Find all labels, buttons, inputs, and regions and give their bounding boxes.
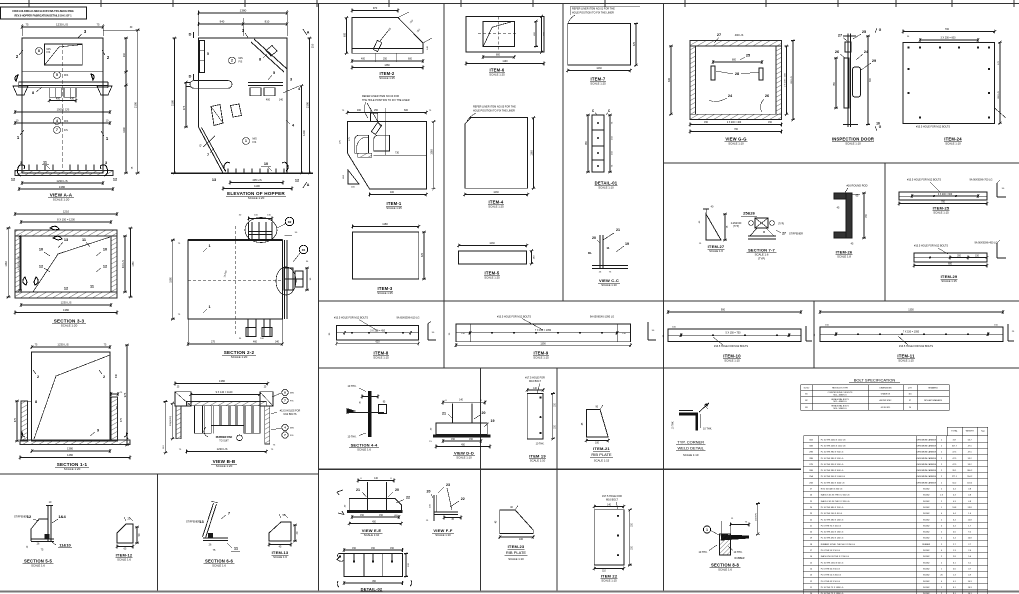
svg-text:340: 340 — [275, 341, 280, 344]
svg-text:600 L/S: 600 L/S — [998, 91, 1000, 99]
panel divider vertical x157 — [157, 474, 159, 591]
svg-text:2190: 2190 — [305, 101, 309, 108]
svg-text:Kgs: Kgs — [981, 431, 984, 433]
section 2-2 top detail ellipse — [245, 218, 277, 243]
section 3-3 top dims — [15, 213, 117, 215]
svg-text:SCALE 1:10: SCALE 1:10 — [508, 557, 524, 561]
svg-text:M16 BOLT: M16 BOLT — [606, 499, 618, 502]
svg-text:#13.5 HOLE FOR M12 BOLTS: #13.5 HOLE FOR M12 BOLTS — [334, 317, 368, 320]
svg-text:29: 29 — [872, 59, 876, 63]
svg-text:IS:2062: IS:2062 — [923, 495, 930, 497]
section 3-3 right dim — [124, 236, 126, 292]
svg-text:12: 12 — [113, 178, 117, 182]
item-8 bar — [337, 326, 419, 340]
view D-D top dim — [443, 401, 485, 403]
svg-text:SCALE 1:6: SCALE 1:6 — [212, 564, 226, 568]
svg-text:21: 21 — [616, 228, 620, 232]
svg-text:5: 5 — [273, 71, 275, 75]
view E-E body — [349, 499, 401, 511]
section 2-2 top connection — [251, 222, 253, 240]
elevation mark 2 circle — [229, 57, 236, 64]
svg-text:11: 11 — [606, 246, 610, 250]
section 1-1 right flange strip — [111, 397, 118, 441]
svg-text:DL: DL — [588, 251, 592, 255]
svg-text:CHROMIUM CARBIDE: CHROMIUM CARBIDE — [916, 475, 936, 478]
svg-text:SCALE 1:25: SCALE 1:25 — [590, 82, 606, 86]
svg-text:HEX BOLTS TYPE: HEX BOLTS TYPE — [832, 387, 849, 389]
item-1 top dims — [347, 112, 426, 114]
view B-B end blocks — [175, 392, 191, 406]
svg-text:THE HOLE POSITION TO FIX THE L: THE HOLE POSITION TO FIX THE LINER — [362, 99, 410, 102]
svg-text:M/S: M/S — [64, 120, 69, 123]
svg-text:24: 24 — [909, 407, 911, 409]
svg-text:SCALE 1:10: SCALE 1:10 — [845, 142, 861, 146]
svg-text:PL 6 THK 90 X 100 LG: PL 6 THK 90 X 100 LG — [821, 525, 842, 527]
svg-text:WITH AUTOWASHERS: WITH AUTOWASHERS — [924, 399, 943, 402]
item-11 bar — [820, 311, 1003, 313]
item-10 bar — [668, 311, 801, 313]
section 4-4 side box — [379, 405, 387, 414]
svg-text:SCALE 1:20: SCALE 1:20 — [53, 198, 70, 202]
svg-text:1230 L/S: 1230 L/S — [57, 342, 68, 346]
svg-text:PL 10 THK 580 X 140 LG: PL 10 THK 580 X 140 LG — [821, 519, 844, 521]
elevation window slot left — [211, 105, 223, 126]
svg-text:SCALE 1:6: SCALE 1:6 — [718, 568, 732, 572]
svg-text:SCALE 1:10: SCALE 1:10 — [530, 459, 546, 463]
view B-B left dims — [171, 403, 173, 438]
svg-text:#13.5 HOLE FOR M12 BOLTS: #13.5 HOLE FOR M12 BOLTS — [914, 245, 948, 248]
elevation bottom dims — [230, 182, 283, 184]
svg-text:CHROMIUM CARBIDE: CHROMIUM CARBIDE — [916, 469, 936, 472]
elevation mark 1 circle — [243, 138, 250, 145]
title note box top-left — [1, 7, 87, 19]
svg-text:12: 12 — [27, 514, 32, 519]
svg-text:13: 13 — [212, 178, 216, 182]
svg-text:PL 10 THK 75 X 1480 LG: PL 10 THK 75 X 1480 LG — [821, 587, 844, 589]
view B-B hanging ribs — [195, 406, 260, 433]
svg-text:SCALE 1:15: SCALE 1:15 — [373, 356, 389, 360]
item-1 inner dim — [374, 154, 427, 156]
svg-text:100: 100 — [595, 441, 600, 444]
item-25 bar — [899, 192, 987, 200]
svg-text:20: 20 — [592, 236, 596, 240]
svg-text:1240: 1240 — [302, 130, 306, 136]
svg-text:(TYP): (TYP) — [733, 226, 739, 228]
svg-text:(TYP): (TYP) — [778, 224, 784, 226]
item-6 outline — [466, 16, 544, 52]
svg-text:REFER LINER ITEM NO.01 FOR THE: REFER LINER ITEM NO.01 FOR THE — [572, 8, 615, 11]
svg-text:400: 400 — [390, 191, 395, 194]
svg-text:REFER LINER ITEM NO.04 FOR: REFER LINER ITEM NO.04 FOR — [362, 95, 399, 98]
svg-text:10 THK.: 10 THK. — [536, 443, 545, 446]
item-24 plate — [903, 42, 995, 123]
section 6-6 base — [203, 537, 228, 539]
item-27 rib triangle — [706, 214, 721, 240]
svg-text:STIFFENER: STIFFENER — [789, 233, 803, 236]
view G-G inner slots — [713, 61, 762, 63]
svg-text:RUBBER: RUBBER — [735, 557, 745, 560]
svg-text:800: 800 — [496, 54, 501, 57]
svg-text:430: 430 — [70, 97, 75, 100]
svg-text:M16 BOLT: M16 BOLT — [529, 380, 541, 383]
svg-text:SCALE 1:20: SCALE 1:20 — [231, 355, 248, 359]
panel divider vertical x444 — [443, 4, 445, 369]
svg-text:20: 20 — [427, 490, 431, 494]
svg-text:9A 90X90X6-450 LG: 9A 90X90X6-450 LG — [975, 242, 998, 245]
svg-text:STIFFENER: STIFFENER — [186, 521, 200, 524]
section 1-1 bottom flange — [20, 440, 130, 445]
svg-text:20: 20 — [395, 488, 399, 492]
item-10 end angle — [805, 326, 807, 341]
svg-text:PL 10 THK 2035 X 1210 LG: PL 10 THK 2035 X 1210 LG — [821, 445, 846, 447]
view B-B bolt circles bottom — [282, 424, 288, 430]
elevation weld ticks — [227, 169, 229, 174]
view D-D body — [436, 423, 487, 435]
svg-text:8: 8 — [35, 400, 37, 404]
svg-text:WEIGHT: WEIGHT — [966, 431, 975, 433]
svg-text:M/S: M/S — [290, 428, 294, 430]
svg-text:1180: 1180 — [382, 222, 388, 226]
item-12 plate — [117, 524, 133, 543]
section 2-2 outline — [188, 240, 282, 319]
svg-text:7 X 150 = 1050: 7 X 150 = 1050 — [535, 329, 552, 332]
svg-text:160 R/V: 160 R/V — [756, 513, 758, 521]
svg-text:SCALE 1:10: SCALE 1:10 — [601, 283, 617, 287]
svg-text:317.7: 317.7 — [952, 445, 958, 447]
svg-text:8 X 150 = 1200: 8 X 150 = 1200 — [57, 217, 75, 221]
svg-text:PL 10 THK 450 X 130 LG: PL 10 THK 450 X 130 LG — [821, 532, 844, 534]
section 1-1 outline — [32, 352, 110, 441]
svg-text:9A 65X65X6-610 LG: 9A 65X65X6-610 LG — [397, 317, 420, 320]
svg-text:400 L/S: 400 L/S — [735, 34, 744, 37]
inspection door dims — [835, 58, 837, 108]
panel divider horizontal y163 — [664, 162, 1019, 164]
panel divider horizontal y469 middle — [319, 468, 802, 470]
item-26 channel — [846, 193, 852, 238]
svg-text:21: 21 — [442, 412, 446, 416]
svg-text:SCALE 1:10: SCALE 1:10 — [456, 456, 472, 460]
svg-text:21: 21 — [356, 488, 360, 492]
svg-text:600: 600 — [343, 32, 346, 37]
svg-text:9 X 140 = 1120: 9 X 140 = 1120 — [216, 391, 233, 394]
item-24 dims — [903, 31, 995, 33]
svg-text:210: 210 — [123, 52, 126, 57]
svg-text:1480: 1480 — [67, 453, 73, 457]
svg-text:7: 7 — [207, 153, 209, 157]
svg-text:SCALE 1:15: SCALE 1:15 — [533, 356, 549, 360]
svg-text:RIB PLATE: RIB PLATE — [591, 452, 611, 457]
svg-text:25&26: 25&26 — [743, 211, 756, 216]
elevation mid band capsule — [190, 81, 232, 89]
item-6 bottom dims — [483, 56, 514, 58]
svg-text:IS:2062: IS:2062 — [923, 575, 930, 577]
elevation bottom corner curls — [224, 162, 230, 171]
section 1-1 left dim — [16, 401, 18, 441]
svg-text:22: 22 — [461, 497, 465, 501]
detail-02 corner hooks — [337, 581, 339, 587]
svg-text:210: 210 — [311, 43, 315, 48]
view D-D bolts — [452, 404, 454, 424]
svg-text:SCALE 1:15: SCALE 1:15 — [941, 279, 957, 283]
item-22 plate — [594, 510, 624, 565]
svg-text:PL 10 THK 660 X 1000 LG: PL 10 THK 660 X 1000 LG — [821, 482, 845, 484]
svg-text:#16 ROUND ROD: #16 ROUND ROD — [846, 184, 867, 188]
section 3-3 weld curls — [50, 226, 59, 230]
svg-text:ISA 65 X 65 X6 THK X 2 550 LG: ISA 65 X 65 X6 THK X 2 550 LG — [821, 494, 850, 497]
svg-text:600 L/S: 600 L/S — [791, 76, 793, 84]
svg-text:400: 400 — [361, 58, 366, 61]
svg-text:TYP. CORNER: TYP. CORNER — [677, 440, 704, 445]
section 2-2 right strip — [284, 240, 286, 319]
svg-text:CHROMIUM CARBIDE: CHROMIUM CARBIDE — [916, 444, 936, 447]
svg-text:M12 BOLTS: M12 BOLTS — [284, 413, 297, 416]
svg-text:SCALE 1:8: SCALE 1:8 — [837, 255, 851, 259]
svg-text:495 L/S: 495 L/S — [252, 178, 261, 182]
svg-text:11: 11 — [43, 161, 47, 165]
svg-text:10 THK.: 10 THK. — [733, 551, 742, 554]
svg-text:26: 26 — [765, 94, 769, 98]
svg-text:#13.5 HOLE FOR M12 BOLTS: #13.5 HOLE FOR M12 BOLTS — [916, 126, 950, 129]
svg-text:3: 3 — [105, 161, 107, 165]
svg-text:700: 700 — [945, 28, 950, 31]
svg-text:1390: 1390 — [540, 342, 546, 345]
item-2 stiffener tag — [373, 40, 382, 51]
svg-text:250: 250 — [383, 58, 388, 61]
svg-text:1380: 1380 — [5, 261, 8, 267]
detail-02 body — [344, 554, 403, 577]
svg-text:SCALE 1:20: SCALE 1:20 — [64, 467, 81, 471]
section 4-4 cross — [368, 391, 372, 437]
svg-text:SCALE 1:25: SCALE 1:25 — [377, 291, 393, 295]
svg-text:600: 600 — [408, 58, 413, 61]
view B-B top bar — [187, 402, 267, 406]
panel divider vertical x885 — [884, 163, 886, 301]
svg-text:IS:2062: IS:2062 — [923, 587, 930, 589]
view A-A top liner window — [45, 44, 83, 65]
item-23 rib plate — [500, 510, 534, 534]
view A-A mark 7 circle — [54, 127, 61, 134]
item-1 corner gusset — [348, 170, 359, 184]
svg-text:12: 12 — [64, 287, 68, 291]
view D-D bottom dims — [443, 440, 481, 442]
svg-text:B1: B1 — [805, 393, 807, 395]
svg-text:15000 C/S: 15000 C/S — [57, 107, 70, 111]
svg-text:SCALE 1:25: SCALE 1:25 — [484, 276, 500, 280]
svg-text:REMARKS: REMARKS — [928, 386, 938, 389]
item-4 outline — [465, 118, 528, 189]
svg-text:WELD DETAIL: WELD DETAIL — [678, 446, 705, 451]
svg-text:1380: 1380 — [133, 261, 135, 267]
item-9 bar — [456, 324, 631, 342]
svg-text:2 X 200 = 400: 2 X 200 = 400 — [727, 122, 742, 124]
svg-text:100: 100 — [519, 538, 524, 541]
view E-E top dim — [358, 480, 394, 482]
svg-text:400 L/S: 400 L/S — [123, 260, 125, 268]
section 3-3 bottom dims — [21, 304, 111, 306]
svg-text:9A 65X65X6-1390 LG: 9A 65X65X6-1390 LG — [590, 316, 614, 319]
svg-text:(TYP): (TYP) — [758, 257, 765, 261]
svg-text:12: 12 — [39, 265, 43, 269]
svg-text:25: 25 — [746, 54, 750, 58]
view E-E bottom dims — [352, 516, 399, 518]
view B-B top dims — [175, 383, 268, 385]
elevation top dims — [198, 10, 200, 36]
svg-text:10 THK.: 10 THK. — [703, 428, 712, 431]
svg-text:(40): (40) — [394, 515, 398, 517]
detail-02 bottom dim — [344, 582, 403, 584]
panel divider vertical x480 — [480, 368, 482, 591]
svg-text:F/S: F/S — [253, 141, 257, 144]
detail-02 left lug — [337, 554, 344, 562]
svg-text:10: 10 — [39, 248, 43, 252]
panel divider vertical x563 — [562, 4, 564, 302]
svg-text:3: 3 — [290, 78, 292, 82]
svg-text:PL 10 THK 490 X 140 LG: PL 10 THK 490 X 140 LG — [821, 538, 844, 540]
svg-text:CHROMIUM CARBIDE: CHROMIUM CARBIDE — [916, 451, 936, 454]
svg-text:800: 800 — [732, 59, 737, 62]
item-8 end angle — [427, 324, 429, 340]
svg-text:IS:2062: IS:2062 — [923, 581, 930, 583]
svg-text:REFER LINER ITEM NO.05 FOR THE: REFER LINER ITEM NO.05 FOR THE — [473, 106, 516, 109]
svg-text:RIB PLATE: RIB PLATE — [506, 550, 526, 555]
item-9 end angle — [647, 322, 649, 340]
svg-text:ITEM-23: ITEM-23 — [508, 544, 525, 549]
svg-text:PL 10 THK 980 X 910 LG: PL 10 THK 980 X 910 LG — [821, 458, 844, 460]
svg-text:600: 600 — [668, 77, 671, 82]
view A-A band end curl right — [91, 74, 94, 80]
svg-text:SCALE 1:6: SCALE 1:6 — [709, 249, 723, 253]
section 2-2 bottom connection — [247, 319, 249, 336]
svg-text:IS:2062: IS:2062 — [923, 525, 930, 527]
svg-text:SCALE 1:25: SCALE 1:25 — [379, 76, 395, 80]
svg-text:13: 13 — [199, 519, 204, 524]
item-21 rib plate — [586, 409, 608, 437]
svg-text:27: 27 — [717, 33, 721, 37]
panel divider horizontal y301 — [319, 300, 1019, 302]
svg-text:DIMENSIONS: DIMENSIONS — [880, 387, 893, 389]
item-25 end angle — [996, 183, 998, 197]
svg-text:1: 1 — [706, 528, 708, 532]
svg-text:28: 28 — [735, 72, 739, 76]
svg-text:IS:2062: IS:2062 — [923, 568, 930, 570]
item-7 outline — [568, 24, 631, 66]
svg-text:1240: 1240 — [123, 127, 126, 133]
section 8-8 rubber block — [720, 534, 731, 555]
svg-text:PL 6 THK 50 X 450 LG: PL 6 THK 50 X 450 LG — [821, 575, 842, 577]
svg-text:360.2: 360.2 — [967, 470, 973, 472]
svg-text:2: 2 — [103, 375, 105, 379]
section 2-2 right connection — [284, 268, 293, 290]
svg-text:3 X 200 = 600: 3 X 200 = 600 — [941, 37, 957, 40]
svg-text:1210: 1210 — [63, 210, 70, 214]
elevation baseline — [171, 172, 313, 174]
sheet top border — [0, 3, 1019, 5]
svg-text:600: 600 — [404, 109, 409, 112]
svg-text:SCALE 1:10: SCALE 1:10 — [598, 186, 614, 190]
svg-text:AS PER SPEC: AS PER SPEC — [880, 399, 893, 402]
svg-text:SCALE 1:10: SCALE 1:10 — [364, 533, 380, 537]
svg-text:CHROMIUM CARBIDE: CHROMIUM CARBIDE — [916, 438, 936, 441]
svg-text:PL 10 THK 930 X 910 LG: PL 10 THK 930 X 910 LG — [821, 464, 844, 466]
svg-text:SCALE 1:6: SCALE 1:6 — [117, 558, 131, 562]
svg-text:RUBBER: RUBBER — [922, 544, 931, 546]
elevation left door strip — [200, 41, 205, 73]
svg-text:460: 460 — [357, 109, 362, 112]
svg-text:SL NO: SL NO — [804, 387, 810, 389]
svg-text:975: 975 — [123, 392, 127, 397]
svg-text:ISA 50 X50 X6 THK X 2 550 LG: ISA 50 X50 X6 THK X 2 550 LG — [821, 555, 850, 558]
svg-text:1190: 1190 — [502, 60, 508, 63]
item-11 end angle — [1007, 324, 1009, 341]
svg-text:CHROMIUM CARBIDE: CHROMIUM CARBIDE — [916, 463, 936, 466]
svg-text:10 THK.: 10 THK. — [347, 436, 356, 439]
svg-text:1: 1 — [208, 244, 210, 248]
view B-B bolt circles top — [282, 389, 288, 395]
svg-text:SCALE 1:15: SCALE 1:15 — [724, 359, 740, 363]
svg-text:1060: 1060 — [430, 149, 433, 155]
svg-text:SCALE 1:6: SCALE 1:6 — [357, 448, 371, 452]
section 2-2 left dim — [172, 240, 174, 319]
svg-text:2: 2 — [37, 375, 39, 379]
svg-text:554.2: 554.2 — [967, 476, 973, 478]
svg-text:M12 - 40MM LG: M12 - 40MM LG — [834, 401, 848, 403]
svg-text:TO SUIT: TO SUIT — [219, 440, 229, 443]
svg-text:1350: 1350 — [908, 309, 914, 312]
svg-text:IS:2062: IS:2062 — [923, 562, 930, 564]
view G-G right dims — [786, 46, 788, 114]
svg-text:5: 5 — [207, 52, 209, 56]
view A-A bottom weld ticks — [28, 165, 30, 171]
svg-text:RUBBER 10THK. THK 500 X 1350 L: RUBBER 10THK. THK 500 X 1350 LG — [821, 544, 856, 546]
svg-text:CHROMIUM CARBIDE: CHROMIUM CARBIDE — [916, 457, 936, 460]
svg-text:ISA 65 X 65 X6 THK X 2 550 LG: ISA 65 X 65 X6 THK X 2 550 LG — [821, 500, 850, 503]
svg-text:F/S: F/S — [47, 51, 51, 54]
view A-A mark 4 circle — [54, 118, 61, 125]
svg-text:10 THK.: 10 THK. — [673, 420, 675, 429]
section 1-1 fold line — [34, 355, 110, 439]
svg-text:SCALE 1:15: SCALE 1:15 — [594, 459, 610, 463]
svg-text:GRADE 8.8: GRADE 8.8 — [881, 392, 890, 395]
item-19 plate — [527, 394, 543, 439]
item-6 inner liner rect — [483, 21, 514, 46]
svg-text:5: 5 — [56, 73, 58, 77]
view E-E bolts — [367, 482, 369, 510]
svg-text:#13.5 HOLE FOR M12 BOLTS: #13.5 HOLE FOR M12 BOLTS — [899, 345, 933, 348]
view B-B left strip — [176, 406, 181, 439]
svg-text:BOLT SPECIFICATION: BOLT SPECIFICATION — [854, 378, 896, 383]
view A-A centre stiffener boxes — [49, 88, 61, 98]
svg-text:DETAIL-02: DETAIL-02 — [361, 587, 383, 592]
section 3-3 left dim — [7, 228, 9, 297]
item-13 plate — [269, 522, 291, 541]
svg-text:TOTAL: TOTAL — [951, 430, 958, 433]
svg-text:F/S: F/S — [290, 435, 294, 437]
svg-text:PL 10 THK 2464 X 1210 LG: PL 10 THK 2464 X 1210 LG — [821, 439, 846, 441]
panel divider horizontal y368 — [319, 367, 1019, 369]
view A-A mid flange band — [19, 81, 108, 83]
svg-text:M12 - 40MM LG: M12 - 40MM LG — [834, 394, 848, 396]
svg-text:400: 400 — [56, 97, 61, 100]
svg-text:20: 20 — [482, 411, 486, 415]
svg-text:12: 12 — [103, 265, 107, 269]
svg-text:19: 19 — [625, 242, 629, 246]
item-29 bar — [914, 253, 987, 262]
svg-text:10: 10 — [103, 248, 107, 252]
view F-F profile — [433, 495, 435, 521]
svg-text:2 X 200 = 400: 2 X 200 = 400 — [784, 72, 786, 86]
section 3-3 hatched frame — [15, 230, 117, 298]
svg-text:1380: 1380 — [384, 64, 390, 67]
